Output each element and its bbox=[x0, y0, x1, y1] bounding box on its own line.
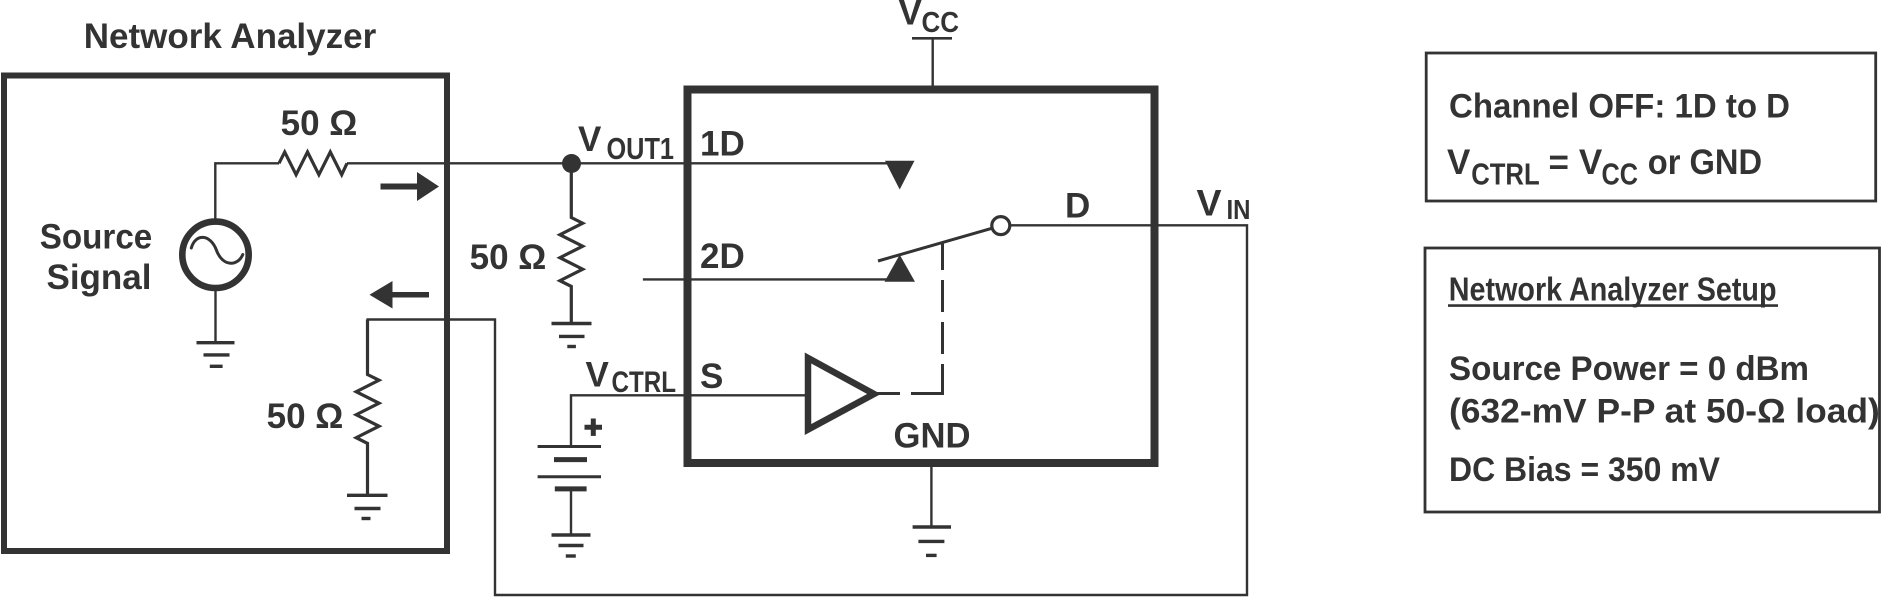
svg-text:IN: IN bbox=[1227, 194, 1251, 225]
svg-text:Source: Source bbox=[40, 217, 153, 256]
wire: resistor to 1D triangle bbox=[347, 162, 893, 164]
control dashed line bbox=[874, 242, 943, 394]
svg-text:V: V bbox=[1197, 182, 1222, 224]
svg-text:1D: 1D bbox=[700, 124, 745, 163]
svg-text:CTRL: CTRL bbox=[612, 366, 677, 399]
buffer amplifier (control) bbox=[808, 358, 874, 430]
2D channel triangle (on, pointing up) bbox=[885, 255, 916, 282]
note2 heading underline bbox=[1448, 304, 1778, 307]
svg-text:CC: CC bbox=[1602, 156, 1639, 191]
svg-text:CC: CC bbox=[922, 7, 960, 39]
ground (V_OUT1 resistor) bbox=[552, 324, 592, 347]
switch pole line bbox=[878, 228, 992, 261]
wire: battery to S pin bbox=[571, 395, 810, 448]
wire: battery to ground bbox=[570, 489, 572, 535]
svg-text:(632-mV P-P at 50-Ω load): (632-mV P-P at 50-Ω load) bbox=[1449, 393, 1880, 431]
wire: source to ground bbox=[214, 288, 216, 343]
svg-text:V: V bbox=[578, 120, 602, 159]
svg-text:Source Power = 0 dBm: Source Power = 0 dBm bbox=[1449, 350, 1809, 388]
ground (source) bbox=[197, 343, 235, 367]
switch contact circle (D) bbox=[992, 217, 1010, 235]
svg-text:GND: GND bbox=[894, 417, 971, 456]
wire: 2D stub bbox=[643, 278, 890, 280]
wire: GND pin to ground bbox=[930, 463, 932, 527]
svg-text:50 Ω: 50 Ω bbox=[470, 238, 547, 277]
svg-text:DC Bias = 350 mV: DC Bias = 350 mV bbox=[1449, 451, 1720, 489]
arrow: reflected (left) bbox=[370, 281, 430, 309]
ground (battery) bbox=[552, 535, 591, 556]
svg-text:Network Analyzer Setup: Network Analyzer Setup bbox=[1449, 270, 1777, 307]
svg-text:Channel OFF: 1D to D: Channel OFF: 1D to D bbox=[1449, 87, 1790, 125]
source signal AC source circle bbox=[182, 222, 248, 288]
junction dot at V_OUT1 bbox=[562, 154, 581, 173]
svg-text:V: V bbox=[1579, 143, 1603, 182]
svg-text:D: D bbox=[1065, 187, 1090, 226]
wire: VCC to box bbox=[932, 38, 934, 89]
resistor R3 50ohm termination (vertical) bbox=[356, 320, 379, 496]
1D channel triangle (off, pointing down) bbox=[885, 161, 915, 190]
svg-text:V: V bbox=[1447, 143, 1471, 182]
wire: source top to resistor bbox=[215, 163, 279, 222]
svg-text:S: S bbox=[700, 357, 723, 396]
svg-text:50 Ω: 50 Ω bbox=[281, 104, 358, 143]
arrow: forward (incident) bbox=[381, 172, 440, 201]
resistor R2 50ohm shunt at V_OUT1 (vertical) bbox=[560, 172, 583, 324]
svg-text:2D: 2D bbox=[700, 237, 745, 276]
svg-text:CTRL: CTRL bbox=[1471, 156, 1540, 191]
svg-text:or GND: or GND bbox=[1648, 143, 1762, 182]
ground (IC GND) bbox=[913, 527, 951, 555]
note box 2 bbox=[1425, 248, 1880, 512]
battery V_CTRL source bbox=[538, 447, 601, 489]
wire: return path (V_IN loop) bbox=[367, 225, 1248, 595]
source sine wave bbox=[191, 237, 243, 263]
plus sign (battery polarity) bbox=[585, 419, 603, 436]
svg-text:=: = bbox=[1549, 143, 1569, 182]
svg-text:V: V bbox=[586, 355, 610, 394]
svg-text:50 Ω: 50 Ω bbox=[267, 397, 344, 436]
resistor R1 50ohm series (horizontal) bbox=[279, 152, 347, 175]
svg-text:Network Analyzer: Network Analyzer bbox=[84, 17, 377, 56]
ground (termination resistor) bbox=[347, 495, 388, 518]
switch IC box bbox=[688, 90, 1155, 464]
note box 1 bbox=[1426, 53, 1876, 201]
svg-text:Signal: Signal bbox=[46, 258, 151, 297]
VCC power bar bbox=[912, 37, 952, 40]
svg-text:OUT1: OUT1 bbox=[607, 131, 675, 166]
Network Analyzer box bbox=[4, 76, 447, 552]
svg-text:V: V bbox=[899, 0, 923, 33]
